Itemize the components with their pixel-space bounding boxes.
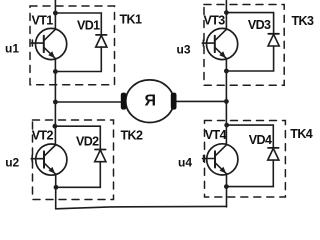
svg-text:VT3: VT3	[204, 14, 226, 28]
wire: left leg VT2 emitter down	[55, 174, 57, 208]
svg-text:VD2: VD2	[76, 135, 99, 149]
transistor VT4	[203, 144, 238, 175]
wire: VD2 anode to VT2 emitter	[56, 162, 100, 188]
wire: left leg collector to top edge	[54, 0, 56, 29]
node: right motor tap	[224, 99, 229, 104]
node: VT2 collector / VD2 junction	[53, 124, 58, 129]
node: VT4 emitter / VD4 junction	[224, 184, 229, 189]
svg-text:VT4: VT4	[205, 128, 227, 142]
wire: VD4 anode to VT4 emitter	[226, 160, 273, 187]
diode VD3	[268, 34, 279, 46]
diode VD1	[96, 35, 107, 47]
wire: VT2 collector to VD2 cathode	[55, 126, 100, 149]
wire: right leg collector to top edge	[225, 0, 227, 29]
svg-text:TK4: TK4	[290, 127, 312, 141]
wire: VD1 anode to VT1 emitter	[55, 47, 101, 71]
svg-text:TK2: TK2	[121, 129, 143, 143]
wire: right leg VT4 emitter down to bottom rail	[226, 174, 228, 207]
svg-text:u4: u4	[178, 155, 192, 169]
node: VT4 collector / VD4 junction	[224, 123, 229, 128]
svg-text:VD1: VD1	[77, 19, 100, 33]
svg-text:VT2: VT2	[32, 129, 54, 143]
node: left motor tap	[53, 100, 58, 105]
transistor VT2	[31, 144, 67, 175]
cell boundary TK2 (dashed)	[33, 120, 114, 200]
wire: right leg VT3 emitter bus down to VT4 collector	[225, 59, 227, 144]
motor armature M (Я)	[126, 80, 174, 123]
node: VT3 collector / VD3 junction	[224, 10, 229, 15]
motor brush left	[121, 93, 127, 110]
svg-text:u1: u1	[5, 41, 19, 55]
motor brush right	[171, 93, 177, 110]
svg-text:u3: u3	[177, 43, 191, 57]
node: VT1 collector / VD1 junction	[53, 11, 58, 16]
node: VT2 emitter / VD2 junction	[54, 185, 59, 190]
wire: VT1 collector to VD1 cathode	[55, 13, 101, 35]
diode VD4	[268, 148, 279, 160]
wire: VT4 collector to VD4 cathode	[227, 125, 274, 148]
wire: left leg VT1 emitter bus down to VT2 collector	[54, 59, 56, 144]
svg-text:TK1: TK1	[120, 13, 142, 27]
cell boundary TK4 (dashed)	[205, 121, 286, 198]
wire: left leg to motor left brush	[55, 101, 120, 103]
transistor VT1	[31, 28, 66, 59]
transistor VT3	[202, 28, 237, 59]
cell boundary TK1 (dashed)	[30, 6, 115, 85]
svg-text:u2: u2	[5, 156, 19, 170]
node: VT1 emitter / VD1 junction	[53, 69, 58, 74]
wire: motor right brush to right leg	[177, 100, 227, 102]
svg-text:VT1: VT1	[32, 14, 54, 28]
wire: bottom rail	[56, 206, 227, 208]
svg-text:TK3: TK3	[292, 14, 314, 28]
diode VD2	[95, 150, 106, 162]
wire: VD3 anode to VT3 emitter	[226, 46, 273, 71]
wire: VT3 collector to VD3 cathode	[226, 13, 273, 34]
svg-text:VD3: VD3	[248, 18, 271, 32]
svg-text:VD4: VD4	[249, 133, 272, 147]
cell boundary TK3 (dashed)	[204, 5, 284, 86]
node: VT3 emitter / VD3 junction	[224, 69, 229, 74]
svg-text:Я: Я	[145, 93, 157, 110]
